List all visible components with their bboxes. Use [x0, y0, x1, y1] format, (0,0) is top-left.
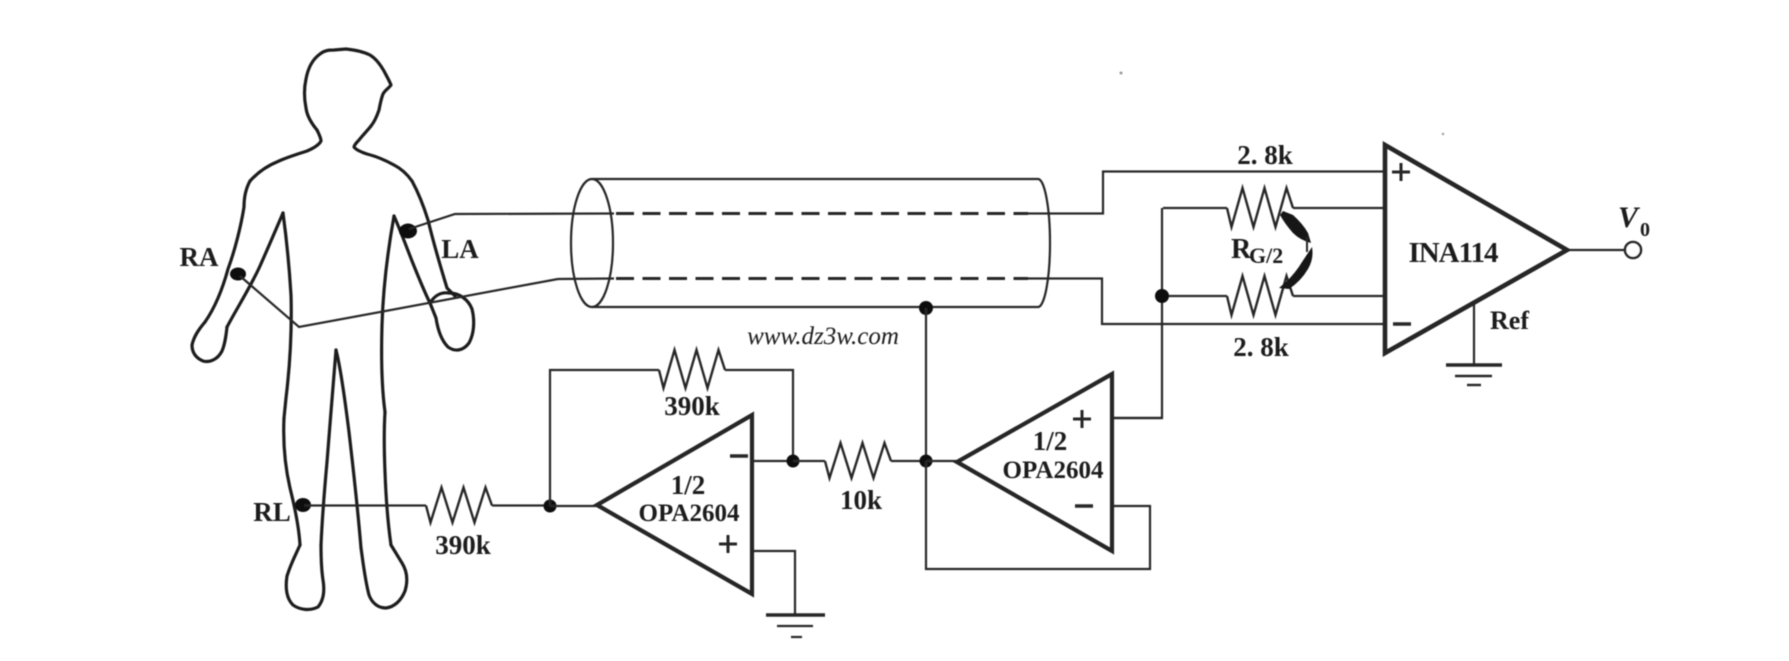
wire U1 output — [1567, 249, 1625, 251]
op-amp U3 1/2 OPA2604 — [957, 374, 1112, 551]
wire U3 noninverting input stub — [1112, 417, 1162, 419]
svg-text:RL: RL — [253, 497, 291, 527]
wire U2 output stub — [550, 505, 599, 507]
svg-text:10k: 10k — [840, 485, 882, 515]
wire U2 inverting input stub — [752, 460, 793, 462]
wiper link — [1306, 237, 1308, 252]
body figure (patient outline) — [192, 49, 474, 609]
cable conductor bottom (dashed) — [616, 277, 1028, 280]
shielded cable — [571, 179, 1050, 307]
label RG/2 — [1231, 234, 1283, 268]
wire LA to cable top conductor — [409, 214, 614, 230]
U3 plus sign — [1073, 410, 1091, 428]
electrode RL — [295, 498, 311, 512]
wire U2 feedback loop — [550, 370, 793, 506]
node U2 output — [544, 500, 557, 513]
node guard junction — [920, 455, 933, 468]
node shield junction on cable — [919, 301, 933, 315]
wire U3 output stub — [926, 460, 959, 462]
U2 minus sign — [730, 454, 748, 457]
wire U1 ref pin — [1473, 303, 1475, 364]
svg-text:G/2: G/2 — [1249, 243, 1283, 268]
svg-text:Ref: Ref — [1490, 306, 1529, 335]
wire 10k to guard node — [793, 460, 926, 462]
wire RA to cable bottom conductor — [240, 276, 614, 327]
output terminal V0 — [1625, 242, 1641, 258]
U3 minus sign — [1075, 504, 1093, 507]
wire RL electrode to op-amp — [304, 504, 552, 506]
svg-text:OPA2604: OPA2604 — [1003, 457, 1104, 484]
svg-text:390k: 390k — [435, 530, 491, 560]
ground (U2) — [766, 615, 825, 637]
potentiometer wiper arrows — [1279, 211, 1313, 289]
svg-text:LA: LA — [441, 234, 479, 264]
label V0 — [1618, 201, 1650, 241]
resistor R 390k (feedback) — [659, 350, 725, 388]
svg-text:1/2: 1/2 — [1033, 426, 1068, 456]
U1 minus sign — [1393, 322, 1411, 325]
resistor R 10k — [825, 443, 891, 478]
svg-text:www.dz3w.com: www.dz3w.com — [747, 323, 899, 350]
node RG midpoint — [1155, 289, 1169, 303]
wire cable bottom conductor to step — [1028, 279, 1383, 325]
op-amp U2 1/2 OPA2604 — [597, 415, 752, 594]
svg-text:2. 8k: 2. 8k — [1237, 140, 1293, 170]
U1 plus sign — [1392, 163, 1410, 181]
wire RG upper to INA — [1163, 207, 1383, 209]
U2 plus sign — [719, 535, 737, 553]
op-amp U1 INA114 — [1385, 145, 1567, 353]
wire RG lower to INA — [1162, 295, 1383, 297]
svg-text:1/2: 1/2 — [671, 470, 706, 500]
wire cable top conductor to step — [1028, 172, 1383, 214]
scan speck — [1120, 72, 1445, 136]
svg-text:INA114: INA114 — [1408, 237, 1498, 269]
electrode LA — [399, 224, 417, 239]
wire shield to guard node — [925, 308, 927, 461]
svg-text:RA: RA — [180, 242, 219, 272]
svg-text:V: V — [1618, 201, 1641, 234]
resistor RG/2 lower — [1227, 276, 1293, 315]
resistor R 390k (RL series) — [426, 488, 492, 523]
svg-text:OPA2604: OPA2604 — [639, 500, 740, 527]
wire RG midpoint down to buffer — [1112, 208, 1162, 418]
electrode RA — [230, 268, 246, 281]
svg-text:2. 8k: 2. 8k — [1233, 332, 1289, 362]
svg-text:0: 0 — [1640, 219, 1650, 241]
cable conductor top (dashed) — [616, 212, 1028, 215]
resistor RG/2 upper — [1227, 188, 1293, 227]
ground (Ref) — [1446, 365, 1502, 385]
node U2 inverting input — [787, 455, 800, 468]
svg-text:390k: 390k — [664, 391, 720, 421]
wire U2 noninverting to ground — [752, 551, 795, 614]
wire U3 feedback loop — [926, 461, 1150, 569]
